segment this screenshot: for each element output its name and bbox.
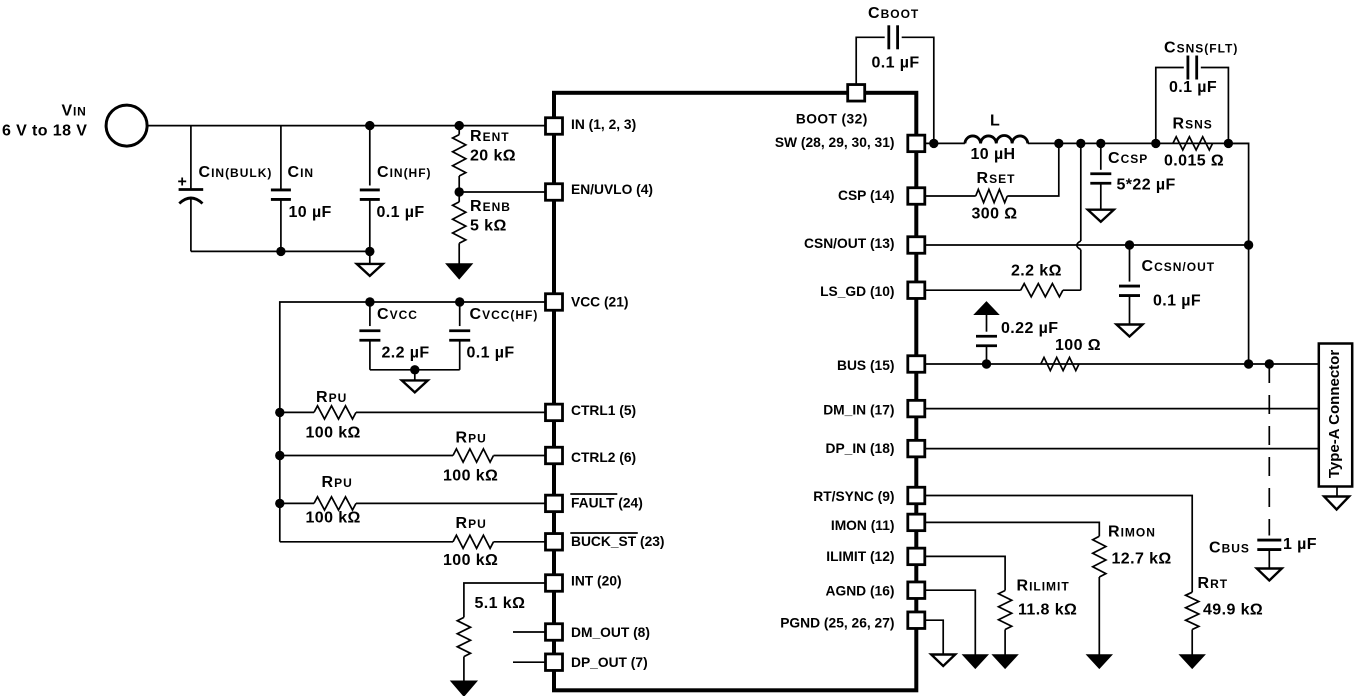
resistor RPU FAULT 100k bbox=[280, 497, 546, 510]
wire VCC row bbox=[280, 302, 546, 542]
svg-text:CVCC(HF): CVCC(HF) bbox=[470, 306, 539, 323]
svg-text:2.2 µF: 2.2 µF bbox=[382, 345, 430, 362]
pin INT (20) bbox=[546, 574, 622, 592]
wire SW rail after inductor bbox=[1028, 142, 1249, 144]
svg-text:CTRL1 (5): CTRL1 (5) bbox=[571, 403, 636, 418]
node RSNS right junction bbox=[1224, 139, 1233, 148]
svg-text:0.1 µF: 0.1 µF bbox=[1169, 79, 1217, 96]
pin EN/UVLO (4) bbox=[546, 182, 654, 200]
svg-text:0.1 µF: 0.1 µF bbox=[377, 204, 425, 221]
resistor RSNS 0.015 bbox=[1173, 137, 1213, 150]
pin FAULT (24) active low bbox=[546, 494, 643, 512]
node CTRL2 bus junction bbox=[275, 451, 284, 460]
svg-text:IMON (11): IMON (11) bbox=[831, 518, 895, 533]
svg-text:Type-A Connector: Type-A Connector bbox=[1326, 350, 1343, 478]
ground Type-A connector bbox=[1324, 487, 1349, 510]
svg-text:CIN(BULK): CIN(BULK) bbox=[199, 164, 273, 181]
pin AGND (16) bbox=[826, 582, 925, 599]
svg-text:DP_OUT (7): DP_OUT (7) bbox=[571, 655, 648, 670]
capacitor CSNS(FLT) 0.1uF bbox=[1156, 56, 1229, 144]
ground PGND bbox=[931, 655, 955, 667]
pin VCC (21) bbox=[546, 294, 629, 311]
wire SW rail bbox=[925, 142, 965, 144]
svg-text:RRT: RRT bbox=[1198, 575, 1229, 592]
pin DP_OUT (7) bbox=[546, 654, 648, 671]
svg-text:5.1 kΩ: 5.1 kΩ bbox=[475, 595, 526, 612]
node RSET junction bbox=[1054, 139, 1063, 148]
capacitor CIN 10uF bbox=[271, 126, 291, 252]
capacitor CVCC 2.2uF bbox=[359, 302, 380, 370]
svg-text:RT/SYNC (9): RT/SYNC (9) bbox=[813, 489, 894, 504]
svg-text:20 kΩ: 20 kΩ bbox=[470, 148, 516, 165]
capacitor CBUS 1uF bbox=[1257, 528, 1281, 569]
wire BUS row bbox=[925, 363, 1319, 365]
capacitor CVCC(HF) 0.1uF bbox=[449, 302, 470, 370]
svg-text:FAULT (24): FAULT (24) bbox=[571, 495, 643, 510]
svg-text:VCC (21): VCC (21) bbox=[571, 294, 629, 309]
svg-text:RSET: RSET bbox=[977, 170, 1016, 187]
capacitor CIN(BULK) polarized bbox=[179, 126, 204, 252]
capacitor CIN(HF) 0.1uF bbox=[360, 126, 380, 252]
svg-text:100 kΩ: 100 kΩ bbox=[443, 552, 498, 569]
svg-text:RILIMIT: RILIMIT bbox=[1017, 578, 1070, 595]
svg-text:L: L bbox=[990, 112, 1000, 129]
wire RSNS output vertical bbox=[1228, 143, 1248, 364]
svg-text:EN/UVLO (4): EN/UVLO (4) bbox=[571, 182, 653, 197]
svg-text:CCSP: CCSP bbox=[1108, 150, 1148, 167]
op-amp U1 IC body TPS buck controller bbox=[554, 93, 916, 691]
wire PGND bbox=[925, 620, 943, 654]
Type-A Connector box bbox=[1319, 344, 1352, 487]
svg-text:CBOOT: CBOOT bbox=[868, 5, 919, 22]
pin IN (1, 2, 3) bbox=[546, 117, 637, 134]
svg-text:49.9 kΩ: 49.9 kΩ bbox=[1203, 602, 1263, 619]
node CCSN/OUT junction bbox=[1125, 240, 1134, 249]
svg-text:0.1 µF: 0.1 µF bbox=[872, 55, 920, 72]
node BUS right junction bbox=[1244, 359, 1253, 368]
wire CVCC ground bus bbox=[370, 369, 460, 371]
svg-text:RPU: RPU bbox=[322, 474, 353, 491]
resistor RPU CTRL2 100k bbox=[280, 449, 546, 462]
svg-text:INT (20): INT (20) bbox=[571, 574, 622, 589]
svg-text:LS_GD (10): LS_GD (10) bbox=[820, 284, 894, 299]
wire CBUS dashed tap bbox=[1268, 364, 1270, 528]
svg-text:2.2 kΩ: 2.2 kΩ bbox=[1011, 263, 1062, 280]
svg-text:AGND (16): AGND (16) bbox=[826, 584, 895, 599]
ground input caps bbox=[357, 251, 383, 276]
svg-text:100 kΩ: 100 kΩ bbox=[443, 468, 498, 485]
svg-text:RSNS: RSNS bbox=[1173, 116, 1213, 133]
ground RENB bbox=[447, 264, 472, 279]
node 0.22uF junction bbox=[982, 359, 991, 368]
node CIN bottom junction bbox=[276, 247, 285, 256]
svg-text:CVCC: CVCC bbox=[377, 306, 418, 323]
ground CBUS bbox=[1257, 569, 1282, 581]
node LS_GD branch junction bbox=[1076, 139, 1085, 148]
svg-text:6 V to 18 V: 6 V to 18 V bbox=[2, 123, 87, 140]
pin IMON (11) bbox=[831, 514, 925, 533]
svg-text:10 µH: 10 µH bbox=[971, 146, 1016, 163]
node RENT RENB junction bbox=[455, 187, 464, 196]
resistor RILIMIT 11.8k bbox=[925, 556, 1012, 655]
svg-text:BOOT (32): BOOT (32) bbox=[796, 111, 868, 126]
resistor RPU CTRL1 100k bbox=[280, 406, 546, 419]
svg-text:ILIMIT (12): ILIMIT (12) bbox=[826, 549, 894, 564]
pin CSN/OUT (13) bbox=[804, 236, 925, 253]
svg-text:RPU: RPU bbox=[316, 389, 347, 406]
svg-text:PGND (25, 26, 27): PGND (25, 26, 27) bbox=[780, 616, 894, 631]
svg-text:SW (28, 29, 30, 31): SW (28, 29, 30, 31) bbox=[775, 135, 895, 150]
capacitor CBOOT 0.1uF bbox=[856, 25, 934, 143]
svg-text:CBUS: CBUS bbox=[1209, 540, 1250, 557]
wire LS_GD branch vertical with hop bbox=[1077, 143, 1081, 290]
svg-text:VIN: VIN bbox=[62, 103, 87, 120]
node RSNS left junction bbox=[1151, 139, 1160, 148]
wire VIN rail to IN pin bbox=[147, 125, 545, 127]
pin BUS (15) bbox=[837, 356, 925, 373]
wire CSN/OUT row bbox=[925, 244, 1249, 246]
svg-text:0.015 Ω: 0.015 Ω bbox=[1164, 153, 1224, 170]
node CBUS junction bbox=[1265, 359, 1274, 368]
svg-text:DM_IN (17): DM_IN (17) bbox=[823, 403, 894, 418]
svg-text:BUS (15): BUS (15) bbox=[837, 358, 895, 373]
svg-text:100 kΩ: 100 kΩ bbox=[306, 510, 361, 527]
svg-text:0.1 µF: 0.1 µF bbox=[467, 345, 515, 362]
resistor RIMON 12.7k bbox=[925, 522, 1106, 655]
svg-text:CSNS(FLT): CSNS(FLT) bbox=[1164, 40, 1238, 57]
svg-text:300 Ω: 300 Ω bbox=[972, 206, 1018, 223]
node RENT top junction bbox=[455, 121, 464, 130]
pin DP_IN (18) bbox=[825, 440, 924, 457]
svg-text:BUCK_ST (23): BUCK_ST (23) bbox=[571, 534, 665, 549]
ground CVCC bbox=[402, 370, 428, 393]
resistor INT 5.1k bbox=[457, 583, 545, 681]
ground AGND bbox=[963, 655, 987, 668]
svg-text:CSP (14): CSP (14) bbox=[838, 188, 895, 203]
node CCSP junction bbox=[1096, 139, 1105, 148]
svg-text:DP_IN (18): DP_IN (18) bbox=[825, 441, 894, 456]
resistor RENT 20k bbox=[453, 126, 466, 192]
resistor BUS 100 Ohm bbox=[1041, 357, 1079, 370]
resistor RRT 49.9k bbox=[925, 496, 1199, 656]
node FAULT bus junction bbox=[275, 499, 284, 508]
svg-text:CIN: CIN bbox=[288, 164, 315, 181]
svg-text:100 Ω: 100 Ω bbox=[1055, 337, 1101, 354]
pin LS_GD (10) bbox=[820, 282, 925, 299]
node CIN(HF) top junction bbox=[365, 121, 374, 130]
pin BUCK_ST (23) active low bbox=[546, 533, 665, 550]
inductor L 10uH bbox=[965, 136, 1028, 144]
ground CCSP bbox=[1088, 210, 1114, 222]
svg-text:RENT: RENT bbox=[470, 128, 510, 145]
svg-text:RPU: RPU bbox=[456, 430, 487, 447]
svg-text:CIN(HF): CIN(HF) bbox=[377, 164, 432, 181]
ground CCSN/OUT bbox=[1117, 325, 1143, 337]
resistor RSET 300 bbox=[925, 143, 1059, 202]
capacitor CCSN/OUT 0.1uF bbox=[1119, 245, 1140, 325]
svg-text:5 kΩ: 5 kΩ bbox=[470, 218, 507, 235]
svg-text:CTRL2 (6): CTRL2 (6) bbox=[571, 450, 636, 465]
resistor RPU BUCK_ST 100k bbox=[280, 535, 546, 548]
svg-text:0.22 µF: 0.22 µF bbox=[1001, 320, 1058, 337]
pin CSP (14) bbox=[838, 188, 925, 205]
node CIN(HF) bottom junction bbox=[365, 247, 374, 256]
svg-text:CSN/OUT (13): CSN/OUT (13) bbox=[804, 236, 894, 251]
node CTRL1 bus junction bbox=[275, 408, 284, 417]
pin SW (28, 29, 30, 31) bbox=[775, 135, 925, 152]
pin CTRL1 (5) bbox=[546, 403, 637, 421]
wire DP_OUT stub bbox=[513, 661, 546, 663]
svg-text:DM_OUT (8): DM_OUT (8) bbox=[571, 625, 650, 640]
ground RRT bbox=[1180, 655, 1204, 668]
node CSN/OUT right junction bbox=[1244, 240, 1253, 249]
svg-text:0.1 µF: 0.1 µF bbox=[1153, 293, 1201, 310]
node CVCC ground junction bbox=[410, 365, 419, 374]
capacitor 0.22uF BUS to LS gate bbox=[975, 302, 998, 364]
svg-text:100 kΩ: 100 kΩ bbox=[306, 425, 361, 442]
ground RIMON bbox=[1087, 655, 1111, 668]
wire DM_IN row bbox=[925, 408, 1319, 410]
svg-text:11.8 kΩ: 11.8 kΩ bbox=[1018, 602, 1077, 619]
wire DP_IN row bbox=[925, 448, 1319, 450]
svg-text:RIMON: RIMON bbox=[1108, 524, 1156, 541]
svg-text:5*22 µF: 5*22 µF bbox=[1117, 177, 1176, 194]
resistor RENB 5k bbox=[453, 192, 466, 264]
pin BOOT (32) bbox=[796, 85, 868, 127]
svg-text:+: + bbox=[178, 174, 187, 191]
voltage source VIN bbox=[106, 105, 147, 146]
pin PGND (25, 26, 27) bbox=[780, 612, 925, 631]
capacitor CCSP 5*22uF bbox=[1090, 143, 1111, 209]
svg-text:RPU: RPU bbox=[456, 515, 487, 532]
wire EN/UVLO bbox=[459, 191, 545, 193]
ground INT resistor bbox=[451, 681, 476, 696]
node CVCC junction bbox=[365, 297, 374, 306]
pin CTRL2 (6) bbox=[546, 447, 637, 465]
svg-text:1 µF: 1 µF bbox=[1283, 536, 1317, 553]
wire input caps ground bus bbox=[191, 250, 370, 252]
node SW CBOOT junction bbox=[929, 139, 938, 148]
svg-text:RENB: RENB bbox=[470, 198, 511, 215]
wire AGND bbox=[925, 590, 976, 655]
pin ILIMIT (12) bbox=[826, 548, 925, 565]
node CVCC(HF) junction bbox=[455, 297, 464, 306]
svg-text:IN (1, 2, 3): IN (1, 2, 3) bbox=[571, 117, 636, 132]
svg-text:10 µF: 10 µF bbox=[289, 204, 332, 221]
pin RT/SYNC (9) bbox=[813, 487, 925, 504]
resistor LS_GD 2.2k bbox=[925, 284, 1081, 297]
wire DM_OUT stub bbox=[513, 631, 546, 633]
ground RILIMIT bbox=[993, 655, 1017, 668]
pin DM_IN (17) bbox=[823, 400, 925, 417]
pin DM_OUT (8) bbox=[546, 624, 650, 641]
svg-text:12.7 kΩ: 12.7 kΩ bbox=[1112, 551, 1172, 568]
svg-text:CCSN/OUT: CCSN/OUT bbox=[1142, 258, 1216, 275]
